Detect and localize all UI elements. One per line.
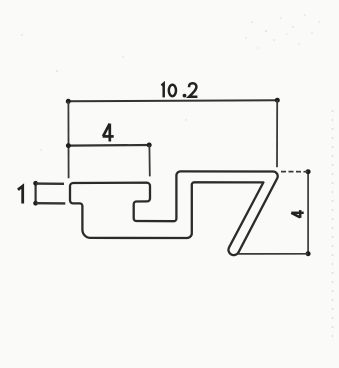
extension line top of 4 right xyxy=(281,171,308,173)
value label 4 right (rotated) xyxy=(291,210,303,218)
extension line right of 4 top xyxy=(148,145,150,176)
dot bottom end 4 right xyxy=(306,251,311,256)
value label 4 top xyxy=(103,124,114,142)
scan artifact right edge xyxy=(332,110,334,340)
dot right end 4 top xyxy=(147,143,152,148)
profile cross-section outline xyxy=(70,171,278,255)
dimension line 1 left xyxy=(34,183,36,203)
dot right end 10.2 xyxy=(275,98,280,103)
dot top end 1 xyxy=(33,181,38,186)
dimension line 10.2 xyxy=(68,100,277,101)
extension line bottom of 1 xyxy=(36,202,66,205)
dot top end 4 right xyxy=(306,169,311,174)
value label 1 xyxy=(18,186,23,203)
value label 10.2 xyxy=(162,83,198,97)
extension line bottom of 4 right xyxy=(238,253,308,255)
extension line top of 1 xyxy=(36,182,64,185)
scan speckles xyxy=(21,14,319,150)
dimension line 4 right xyxy=(307,172,309,254)
dot bottom end 1 xyxy=(33,201,38,206)
extension line right of 10.2 xyxy=(276,100,278,167)
dimension line 4 top xyxy=(68,144,149,147)
extension line left of 10.2 and 4 xyxy=(67,101,69,178)
dot left end 10.2 xyxy=(66,99,71,104)
dot left end 4 top xyxy=(66,143,71,148)
